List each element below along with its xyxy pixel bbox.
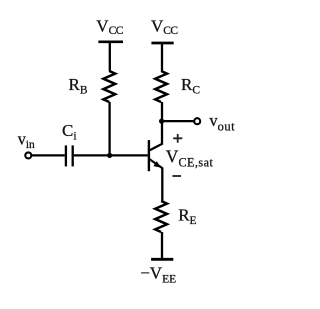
wire vin to Ci <box>32 154 65 156</box>
transistor Q1 emitter arrow <box>153 161 160 168</box>
svg-text:vout: vout <box>209 111 235 133</box>
resistor RE <box>155 201 167 232</box>
transistor Q1 base bar <box>148 140 150 171</box>
capacitor Ci plate 1 <box>65 145 67 166</box>
wire VCC bar to RB <box>109 42 111 72</box>
svg-text:RB: RB <box>69 75 88 97</box>
transistor Q1 emitter arm <box>149 159 163 168</box>
supply rail bar VCC right <box>151 42 173 45</box>
wire emitter to RE <box>161 168 163 202</box>
resistor RC <box>155 71 167 102</box>
label + polarity <box>173 134 182 143</box>
terminal vout <box>194 118 200 124</box>
node base junction <box>107 153 112 158</box>
wire RC to collector <box>161 102 163 145</box>
wire RE to VEE bar <box>161 232 163 259</box>
supply rail bar VCC left <box>98 40 123 43</box>
svg-text:Ci: Ci <box>62 121 77 142</box>
svg-text:−VEE: −VEE <box>140 263 176 285</box>
wire Ci to transistor base <box>74 154 148 156</box>
terminal vin <box>25 152 31 158</box>
resistor RB <box>103 71 115 102</box>
node collector junction <box>159 119 164 124</box>
svg-text:RC: RC <box>181 75 200 97</box>
wire RB to base node <box>108 102 110 155</box>
svg-text:VCE,sat: VCE,sat <box>166 146 214 169</box>
wire VCC bar to RC <box>161 43 163 72</box>
label - polarity <box>172 175 181 177</box>
svg-text:VCC: VCC <box>96 17 123 38</box>
svg-text:VCC: VCC <box>151 17 178 38</box>
transistor Q1 collector arm <box>149 144 162 151</box>
supply rail bar VEE <box>151 258 173 261</box>
svg-text:vin: vin <box>18 129 35 151</box>
wire collector node to vout terminal <box>162 120 194 122</box>
capacitor Ci plate 2 <box>72 145 74 166</box>
svg-text:RE: RE <box>178 205 196 227</box>
